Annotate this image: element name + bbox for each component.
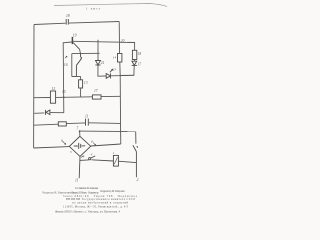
wire: diode 21 to corner then right bbox=[98, 65, 106, 76]
wire: emitter drop bbox=[79, 49, 82, 53]
wire: bottom-left run to bridge bbox=[34, 147, 70, 148]
thermal contact 4 bbox=[89, 156, 96, 160]
wire: switch lower vertical to terminal 2 bbox=[135, 152, 137, 178]
svg-text:2: 2 bbox=[137, 178, 139, 182]
node 15 junction dot bbox=[63, 96, 65, 98]
label 9 with arrow bbox=[61, 138, 66, 144]
bridge rectifier diamond bbox=[69, 136, 90, 156]
label 10 with arrow at bottom apex bbox=[81, 155, 84, 159]
diode 22 row wire bbox=[34, 112, 44, 114]
wire: right edge lower segment bbox=[120, 132, 122, 144]
svg-text:8: 8 bbox=[91, 139, 93, 143]
switch 2 branch: corner and upper lead bbox=[135, 132, 137, 144]
svg-text:21: 21 bbox=[101, 61, 105, 65]
wire: from right edge bottom corner to bridge right apex bbox=[91, 144, 121, 146]
wire: between resistor 18 and diode 17 bbox=[133, 60, 135, 62]
wire C: middle segment bbox=[56, 96, 93, 99]
wire: transistor base lead and inner-left vertical bbox=[63, 42, 71, 113]
capacitor 11 on wire A bbox=[86, 119, 89, 126]
svg-text:1 лист: 1 лист bbox=[86, 7, 101, 11]
svg-text:12: 12 bbox=[52, 87, 56, 91]
footer credits left bbox=[43, 187, 126, 194]
svg-text:11: 11 bbox=[85, 115, 89, 119]
label 16 with arrow bbox=[64, 56, 68, 67]
wire: contact loop bottom bbox=[72, 75, 81, 77]
svg-text:23: 23 bbox=[113, 68, 117, 72]
svg-text:Филиал ППП «Патент», г. Ужгоро: Филиал ППП «Патент», г. Ужгород, ул. Про… bbox=[55, 211, 121, 214]
wire: top edge right of capacitor bbox=[69, 22, 119, 24]
resistor 13 bbox=[79, 80, 83, 88]
resistor 17 (horizontal on wire C) bbox=[92, 95, 101, 99]
svg-text:19: 19 bbox=[73, 34, 77, 38]
wire A: left of resistor bbox=[34, 124, 58, 125]
capacitor 18 on top edge bbox=[66, 19, 68, 25]
wire: bridge top apex riser bbox=[79, 131, 81, 137]
wire C: left segment bbox=[34, 97, 50, 99]
svg-text:18: 18 bbox=[66, 14, 70, 18]
diode 21 branch vertical bbox=[97, 40, 99, 61]
svg-text:Корректор М. Шароши: Корректор М. Шароши bbox=[101, 190, 126, 193]
svg-text:17: 17 bbox=[94, 89, 98, 93]
wire A: right segment to right edge bbox=[89, 122, 121, 125]
svg-text:113035, Москва, Ж—35, Раушская: 113035, Москва, Ж—35, Раушская наб., д. … bbox=[63, 205, 129, 208]
wire: photodiode to diode-17 corner bbox=[111, 74, 134, 77]
diode 21 (pointing down) bbox=[95, 61, 100, 66]
svg-text:4: 4 bbox=[83, 155, 85, 159]
wire: diode 17 to bottom corner then left bbox=[120, 66, 134, 76]
diode 17 (zener, pointing down) bbox=[132, 61, 137, 65]
wire C: right end bbox=[101, 95, 120, 97]
wire: right edge mid segment bbox=[119, 76, 121, 132]
diode 22 (cathode left) bbox=[45, 110, 50, 115]
svg-text:7: 7 bbox=[76, 127, 78, 131]
wire: relay coil to switch lower terminal bbox=[118, 161, 136, 162]
relay coil 1 bbox=[113, 155, 118, 166]
photodiode 23 bbox=[106, 69, 113, 78]
footer imprint block bbox=[55, 195, 138, 214]
wire D: to thermal contact bbox=[80, 159, 89, 162]
svg-text:16: 16 bbox=[64, 63, 68, 67]
wire: resistor 13 to wire C bbox=[80, 88, 82, 97]
svg-text:9: 9 bbox=[61, 138, 63, 142]
svg-text:11: 11 bbox=[75, 179, 79, 183]
wire: right edge below resistor 15 bbox=[119, 62, 121, 76]
svg-text:15: 15 bbox=[62, 90, 66, 94]
resistor 12 bbox=[50, 91, 55, 103]
svg-text:4: 4 bbox=[91, 152, 93, 156]
svg-text:18: 18 bbox=[138, 52, 142, 56]
wire: bridge bottom vertical to terminal 11 bbox=[78, 156, 81, 178]
resistor 24 (on wire A) bbox=[58, 122, 66, 126]
wire: below contact loop to resistor 13 bbox=[80, 76, 82, 79]
wire A: between resistor and capacitor bbox=[66, 122, 85, 125]
wire: left edge of loop bbox=[33, 25, 35, 149]
wire: right edge upper segment bbox=[118, 22, 120, 54]
wire: top edge left of capacitor C18 bbox=[34, 23, 66, 24]
wire: collector lead to right edge bbox=[73, 40, 120, 43]
wire B: bridge top tap to switch branch bbox=[80, 130, 136, 133]
label 8 with arrow bbox=[91, 139, 96, 145]
svg-text:5: 5 bbox=[70, 150, 72, 154]
svg-text:по делам изобретений и открыти: по делам изобретений и открытий bbox=[72, 201, 129, 204]
capacitor inside bridge bbox=[74, 143, 85, 149]
contact 16 blade bbox=[76, 53, 82, 76]
svg-text:17: 17 bbox=[137, 62, 141, 66]
svg-text:13: 13 bbox=[84, 81, 88, 85]
svg-text:Составитель В. Алексеев: Составитель В. Алексеев bbox=[75, 187, 99, 190]
wire: branch to resistor 18 chain bbox=[120, 42, 135, 50]
svg-text:14: 14 bbox=[113, 55, 117, 59]
wire: emitter node horizontal to diode 21 branch bbox=[72, 52, 100, 54]
transistor 19 bbox=[72, 37, 79, 49]
resistor 15 (on right edge) bbox=[118, 54, 122, 63]
wire: contact to relay coil bbox=[92, 160, 114, 161]
node 7 junction bbox=[79, 130, 81, 132]
wire: contact loop left side bbox=[71, 54, 73, 77]
svg-text:Техред И. Верес Корректор: Техред И. Верес Корректор bbox=[72, 191, 100, 194]
page top edge line bbox=[54, 4, 167, 7]
switch 2 blade bbox=[133, 145, 138, 151]
resistor 18 (branch) bbox=[132, 50, 136, 59]
wire: diode to inner vertical corner bbox=[50, 112, 64, 114]
